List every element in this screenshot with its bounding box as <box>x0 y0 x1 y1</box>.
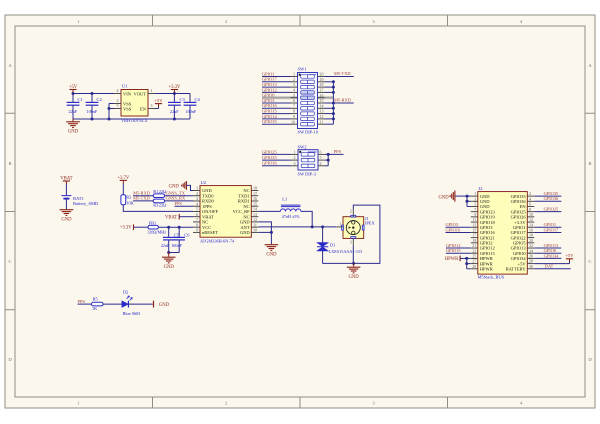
U2 pin 8 VCC <box>193 226 200 228</box>
svg-text:NC: NC <box>243 214 249 219</box>
J2 pin 8 GPIO25 <box>527 211 534 213</box>
U1 pin 2 VSS <box>114 103 121 105</box>
U1 pin 4 VIN <box>114 93 121 95</box>
wire VCC rail <box>158 226 193 228</box>
svg-text:GND: GND <box>169 184 180 189</box>
svg-text:GPIO0: GPIO0 <box>262 93 275 98</box>
J2 pin 27 HPWR <box>471 263 478 265</box>
J2 pin 14 GPIO1 <box>527 226 534 228</box>
svg-text:4: 4 <box>117 88 119 93</box>
U2 pin 7 NC <box>193 221 200 223</box>
wire GNSS_TX <box>165 195 193 197</box>
J2 pin 24 GPIO0 <box>527 252 534 254</box>
ground GND (C5 C6) <box>162 256 176 258</box>
J2 pin 21 GPIO12 <box>471 247 478 249</box>
wire +5V (J2) <box>534 263 569 265</box>
svg-text:10: 10 <box>253 228 257 233</box>
wire M5-RXD <box>133 195 153 197</box>
svg-text:GPIO16: GPIO16 <box>446 227 461 232</box>
SW1 pin 1 net GPIO1 <box>262 76 291 78</box>
net highlight band GPIO0 <box>262 96 333 99</box>
svg-text:GND: GND <box>164 265 175 270</box>
power GND port (LED) <box>153 301 155 308</box>
svg-text:2: 2 <box>350 209 352 214</box>
wire GPIO3 <box>446 226 471 228</box>
svg-text:ATGM336H-6N-74: ATGM336H-6N-74 <box>200 238 235 243</box>
J2 pin 29 HPWR <box>471 268 478 270</box>
svg-text:5: 5 <box>320 155 322 160</box>
svg-text:C4: C4 <box>195 97 201 102</box>
resistor R1 <box>153 194 164 198</box>
svg-text:1: 1 <box>294 150 296 155</box>
svg-text:GND: GND <box>438 195 449 200</box>
svg-text:HPWR: HPWR <box>480 267 493 272</box>
svg-text:GPIO35: GPIO35 <box>262 155 277 160</box>
svg-text:VIN: VIN <box>123 91 132 96</box>
svg-text:30: 30 <box>529 264 533 269</box>
svg-text:9: 9 <box>293 114 295 119</box>
svg-text:EN: EN <box>140 106 147 111</box>
svg-text:7: 7 <box>293 103 295 108</box>
svg-text:M5Stack_BUS: M5Stack_BUS <box>478 275 505 280</box>
svg-text:GPIO25: GPIO25 <box>262 149 277 154</box>
J2 pin 11 GPIO18 <box>471 221 478 223</box>
wire VCC_RF to L1 <box>258 210 280 212</box>
svg-text:11: 11 <box>320 119 324 124</box>
J2 pin 4 GPIO36 <box>527 200 534 202</box>
J2 pin 25 HPWR <box>471 257 478 259</box>
svg-text:D1: D1 <box>330 242 335 247</box>
svg-text:GND: GND <box>159 303 170 308</box>
ground GND (U2 right) <box>265 244 279 246</box>
SW2 pin 3 net GPIO36 <box>262 165 291 167</box>
wire J1 pin3 to ground node <box>352 246 354 264</box>
J2 pin 9 GPIO19 <box>471 216 478 218</box>
svg-text:120Ω/MHz: 120Ω/MHz <box>147 230 166 235</box>
svg-text:+3.3V: +3.3V <box>120 226 133 231</box>
svg-text:10: 10 <box>291 119 295 124</box>
svg-text:BATTERY: BATTERY <box>506 267 527 272</box>
svg-text:4: 4 <box>320 161 322 166</box>
zone ticks <box>152 15 154 26</box>
J2 pin 3 GND <box>471 200 478 202</box>
J2 pin 2 GPIO35 <box>527 195 534 197</box>
wire VOUT to +3.3V rail <box>155 93 190 95</box>
svg-text:5: 5 <box>293 93 295 98</box>
svg-text:+5V: +5V <box>155 98 164 103</box>
SW1 pin 18 <box>318 86 325 88</box>
svg-text:M5-TXD: M5-TXD <box>334 71 351 76</box>
svg-text:R1: R1 <box>153 189 158 194</box>
svg-text:SW DIP-3: SW DIP-3 <box>298 172 317 177</box>
U1 pin 3 EN <box>148 108 155 110</box>
SW1 pin 5 net GPIO0 <box>262 97 291 99</box>
J1 pin 2 shield <box>352 210 354 217</box>
SW1 pin 3 net GPIO13 <box>262 86 291 88</box>
J1 pin 3 shield <box>352 238 354 245</box>
svg-text:1K: 1K <box>92 306 98 311</box>
wire GPIO12 <box>446 247 471 249</box>
wire HPWR bus <box>460 257 471 259</box>
SW1 pin 12 <box>318 118 325 120</box>
SW2 pin 4 <box>318 165 325 167</box>
module U2 <box>200 186 251 238</box>
J1 pin 1 <box>336 226 343 228</box>
svg-text:PPS: PPS <box>334 149 342 154</box>
svg-text:C: C <box>588 259 591 264</box>
wire C5 C6 ground <box>169 252 180 254</box>
svg-text:10K: 10K <box>126 201 134 206</box>
svg-text:100nF: 100nF <box>186 109 197 114</box>
svg-text:M5-RXD: M5-RXD <box>334 98 351 103</box>
svg-text:22uF: 22uF <box>161 243 170 248</box>
U2 pin 10 GND <box>251 231 258 233</box>
J2 pin 7 GPIO23 <box>471 211 478 213</box>
svg-text:SW DIP-10: SW DIP-10 <box>298 129 319 134</box>
wire VBAT pin6 <box>179 216 193 218</box>
J2 pin 20 GPIO5 <box>527 242 534 244</box>
SW1 pin 17 <box>318 91 325 93</box>
svg-text:GND: GND <box>68 129 79 134</box>
svg-text:22uF: 22uF <box>170 109 179 114</box>
SW1 pin 15 <box>318 102 325 104</box>
svg-text:VBAT: VBAT <box>202 214 214 219</box>
capacitor C1 <box>72 94 74 102</box>
SW1 pin 9 net GPIO14 <box>262 118 291 120</box>
svg-text:13: 13 <box>320 109 324 114</box>
connector J2 <box>478 192 528 275</box>
svg-text:GPIO15: GPIO15 <box>446 248 461 253</box>
wire GPIO34 <box>534 257 561 259</box>
svg-text:4: 4 <box>293 88 295 93</box>
wire J2 ground bus <box>455 195 470 197</box>
svg-text:B: B <box>588 161 591 166</box>
wire +3.3V to FB1 <box>134 226 149 228</box>
svg-text:1: 1 <box>151 88 153 93</box>
svg-text:R5: R5 <box>93 297 98 302</box>
svg-text:5: 5 <box>117 103 119 108</box>
SW2 pin 5 <box>318 159 325 161</box>
svg-text:6: 6 <box>320 150 322 155</box>
wire D1 to ground node <box>323 262 354 264</box>
SW1 pin 10 net GPIO35 <box>262 123 291 125</box>
svg-text:VSS: VSS <box>123 106 132 111</box>
svg-text:+5V: +5V <box>566 253 575 258</box>
svg-text:C3: C3 <box>180 97 186 102</box>
SW1 pin 6 net GPIO3 <box>262 102 291 104</box>
svg-text:22Ω: 22Ω <box>159 203 167 208</box>
U2 pin 17 TXD1 <box>251 195 258 197</box>
SW1 pin 13 <box>318 113 325 115</box>
U1 pin 1 VOUT <box>148 93 155 95</box>
svg-text:SW2: SW2 <box>298 144 307 149</box>
resistor R2 <box>121 195 126 205</box>
wire PPS to 1PPS <box>175 205 194 207</box>
svg-text:Blue 0603: Blue 0603 <box>123 311 141 316</box>
svg-text:GPIO35: GPIO35 <box>262 119 277 124</box>
svg-text:6: 6 <box>293 98 295 103</box>
svg-text:47nH ±5%: 47nH ±5% <box>282 214 301 219</box>
svg-text:GPIO16: GPIO16 <box>262 103 277 108</box>
J2 pin 5 GND <box>471 205 478 207</box>
resistor R5 <box>92 302 104 306</box>
wire GNSS_RX <box>165 200 193 202</box>
U2 pin 1 GND <box>193 190 200 192</box>
SW1 pin 11 <box>318 123 325 125</box>
wire VSS ground rail <box>73 118 190 120</box>
svg-text:16: 16 <box>253 196 257 201</box>
wire L1 to antenna node <box>301 211 312 227</box>
J2 pin 18 GPIO22 <box>527 237 534 239</box>
svg-text:12: 12 <box>320 114 324 119</box>
wire SW2 output bus <box>327 154 329 165</box>
SW2 pin 1 net GPIO25 <box>262 153 291 155</box>
U2 pin 16 RXD1 <box>251 200 258 202</box>
svg-text:11: 11 <box>253 222 257 227</box>
J2 pin 17 GPIO21 <box>471 237 478 239</box>
U2 pin 9 nRESET <box>193 231 200 233</box>
regulator U1 <box>121 90 148 117</box>
svg-text:HPWR: HPWR <box>445 257 459 262</box>
J2 pin 30 BATTERY <box>527 268 534 270</box>
wire GPIO0 <box>534 252 561 254</box>
svg-text:1: 1 <box>340 222 342 227</box>
wire GPIO17 <box>534 231 561 233</box>
svg-text:GND: GND <box>240 230 250 235</box>
wire R2 to ON/OFF <box>123 205 193 212</box>
svg-text:NC: NC <box>243 188 249 193</box>
svg-text:GNSS_TX: GNSS_TX <box>166 190 186 195</box>
SW1 pin 20 <box>318 76 325 78</box>
svg-text:15: 15 <box>320 98 324 103</box>
U2 pin 12 GND <box>251 221 258 223</box>
svg-text:GPIO14: GPIO14 <box>262 114 277 119</box>
svg-text:GPIO17: GPIO17 <box>262 77 277 82</box>
svg-text:D2: D2 <box>123 289 128 294</box>
wire U2 GND pins 10 12 <box>258 222 271 244</box>
J2 pin 15 GPIO16 <box>471 231 478 233</box>
J2 pin 6 EN <box>527 205 534 207</box>
ground GND (antenna) <box>347 266 361 268</box>
wire GPIO15 <box>446 252 471 254</box>
svg-text:GPIO3: GPIO3 <box>262 98 275 103</box>
svg-text:GPIO25: GPIO25 <box>544 207 559 212</box>
svg-text:C: C <box>8 259 11 264</box>
svg-text:GNSS_RX: GNSS_RX <box>166 196 186 201</box>
SW1 pin 14 <box>318 107 325 109</box>
svg-text:Battery_SMD: Battery_SMD <box>73 201 99 206</box>
connector J1 <box>343 217 364 239</box>
J2 pin 13 GPIO3 <box>471 226 478 228</box>
svg-text:VBAT: VBAT <box>165 215 177 220</box>
wire U2 pin1 to GND <box>186 185 193 190</box>
svg-text:VOUT: VOUT <box>134 91 147 96</box>
U2 pin 2 TXD0 <box>193 195 200 197</box>
diode D1 TVS <box>322 227 324 243</box>
SW1 pin 8 net GPIO15 <box>262 113 291 115</box>
wire GPIO25 <box>534 211 561 213</box>
svg-text:16: 16 <box>320 93 324 98</box>
svg-text:GND: GND <box>61 217 72 222</box>
svg-text:3: 3 <box>293 82 295 87</box>
wire EN <box>155 108 159 110</box>
U2 pin 13 NC <box>251 216 258 218</box>
J2 pin 22 GPIO13 <box>527 247 534 249</box>
svg-text:C1: C1 <box>78 97 83 102</box>
capacitor C4 <box>189 94 191 102</box>
svg-text:22uF: 22uF <box>69 109 78 114</box>
SW2 pin 6 <box>318 153 325 155</box>
wire M5-TXD <box>133 200 153 202</box>
svg-text:U2: U2 <box>201 180 207 185</box>
svg-text:1: 1 <box>293 72 295 77</box>
wire GPIO13 <box>534 247 561 249</box>
svg-text:nRESET: nRESET <box>202 230 218 235</box>
svg-text:VRH1301NLX: VRH1301NLX <box>121 118 148 123</box>
SW1 pin 19 <box>318 81 325 83</box>
svg-text:8: 8 <box>293 109 295 114</box>
capacitor C3 <box>173 94 175 102</box>
svg-text:GND: GND <box>266 252 277 257</box>
battery BAT1 <box>61 195 71 197</box>
svg-text:GND: GND <box>349 275 360 280</box>
U2 pin 18 NC <box>251 190 258 192</box>
ground GND (battery) <box>60 209 74 211</box>
J2 pin 28 +5V <box>527 263 534 265</box>
wire VSS pins to rail <box>109 103 114 105</box>
SW1 pin 16 <box>318 97 325 99</box>
ferrite bead FB1 <box>148 225 158 229</box>
svg-text:GPIO36: GPIO36 <box>544 196 559 201</box>
wire ANT <box>258 226 336 228</box>
J2 pin 16 GPIO17 <box>527 231 534 233</box>
svg-text:9: 9 <box>196 228 198 233</box>
svg-text:LXES15AAA1-153: LXES15AAA1-153 <box>329 249 363 254</box>
svg-text:3: 3 <box>151 103 153 108</box>
svg-text:29: 29 <box>472 264 476 269</box>
svg-text:3: 3 <box>350 240 352 245</box>
wire GPIO35 <box>534 195 561 197</box>
svg-text:3: 3 <box>294 161 296 166</box>
capacitor C5 <box>168 227 170 237</box>
U2 pin 15 NC <box>251 205 258 207</box>
svg-text:GPIO17: GPIO17 <box>544 227 559 232</box>
svg-text:8: 8 <box>196 222 198 227</box>
svg-text:M5-RXD: M5-RXD <box>133 190 150 195</box>
U2 pin 4 1PPS <box>193 205 200 207</box>
svg-text:U1: U1 <box>122 84 128 89</box>
ground GND (U1 input) <box>72 119 74 122</box>
wire PPS to R5 <box>78 303 92 305</box>
svg-text:2: 2 <box>293 77 295 82</box>
svg-text:GPIO34: GPIO34 <box>544 253 559 258</box>
resistor R3 <box>153 199 164 203</box>
wire R5 to D2 <box>103 303 122 305</box>
svg-text:DAT: DAT <box>545 264 554 269</box>
LED D2 <box>122 301 129 308</box>
svg-text:R3: R3 <box>153 203 158 208</box>
svg-text:100nF: 100nF <box>87 109 98 114</box>
capacitor C6 <box>178 227 180 237</box>
svg-text:PPS: PPS <box>175 201 183 206</box>
svg-text:R2: R2 <box>126 194 131 199</box>
SW1 pin 4 net GPIO12 <box>262 91 291 93</box>
svg-text:GPIO36: GPIO36 <box>262 161 277 166</box>
svg-text:3: 3 <box>196 196 198 201</box>
svg-text:B: B <box>8 161 11 166</box>
U2 pin 6 VBAT <box>193 216 200 218</box>
wire DAT <box>534 268 570 270</box>
J2 pin 12 +3.3V <box>527 221 534 223</box>
svg-text:GND: GND <box>202 188 212 193</box>
svg-text:17: 17 <box>320 88 324 93</box>
wire GPIO16 <box>446 231 471 233</box>
svg-text:GPIO1: GPIO1 <box>262 71 274 76</box>
svg-text:L1: L1 <box>282 197 287 202</box>
svg-text:18: 18 <box>320 82 324 87</box>
wire +5V rail to VIN <box>73 93 114 95</box>
J2 pin 10 GPIO26 <box>527 216 534 218</box>
svg-text:PPS: PPS <box>78 299 86 304</box>
svg-text:C6: C6 <box>184 233 190 238</box>
svg-text:GPIO13: GPIO13 <box>262 82 277 87</box>
svg-text:14: 14 <box>320 103 324 108</box>
wire J1 shield loop <box>353 205 380 263</box>
svg-text:FB1: FB1 <box>149 220 156 225</box>
svg-text:2: 2 <box>294 155 296 160</box>
svg-text:20: 20 <box>320 72 324 77</box>
svg-text:IPEX: IPEX <box>365 221 376 226</box>
U1 pin 5 VSS <box>114 108 121 110</box>
wire GPIO1 <box>534 226 561 228</box>
wire D2 to GND <box>128 303 152 305</box>
J2 pin 1 GND <box>471 195 478 197</box>
svg-text:SW1: SW1 <box>298 67 307 72</box>
SW2 pin 2 net GPIO35 <box>262 159 291 161</box>
svg-text:100nF: 100nF <box>171 243 182 248</box>
capacitor C2 <box>91 94 93 102</box>
U2 pin 14 VCC_RF <box>251 210 258 212</box>
U2 pin 3 RXD0 <box>193 200 200 202</box>
svg-text:GPIO12: GPIO12 <box>262 87 277 92</box>
svg-text:19: 19 <box>320 77 324 82</box>
U2 pin 11 ANT <box>251 226 258 228</box>
wire GPIO36 <box>534 200 561 202</box>
SW1 pin 7 net GPIO16 <box>262 107 291 109</box>
SW1 pin 2 net GPIO17 <box>262 81 291 83</box>
J2 pin 19 GPIO2 <box>471 242 478 244</box>
svg-text:GPIO15: GPIO15 <box>262 109 277 114</box>
J2 pin 23 GPIO15 <box>471 252 478 254</box>
wire SW1 output bus <box>332 82 334 124</box>
svg-text:J2: J2 <box>479 186 483 191</box>
svg-text:M5-TXD: M5-TXD <box>133 196 150 201</box>
J2 pin 26 GPIO34 <box>527 257 534 259</box>
U2 pin 5 ON/OFF <box>193 210 200 212</box>
svg-text:C2: C2 <box>97 97 102 102</box>
